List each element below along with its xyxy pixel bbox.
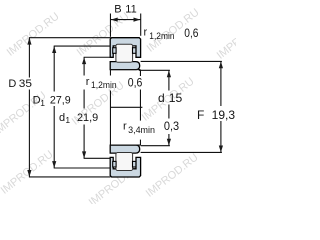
inner ring (lower) <box>110 145 140 153</box>
roller (lower) <box>116 153 133 171</box>
dimension lines <box>29 14 222 177</box>
svg-text:11: 11 <box>125 4 136 16</box>
dimension labels <box>8 4 235 135</box>
dimension arrowheads <box>27 18 223 177</box>
B dimension <box>109 14 111 37</box>
svg-text:d: d <box>59 112 65 124</box>
svg-text:F: F <box>197 108 204 122</box>
svg-text:r: r <box>86 76 90 88</box>
bearing lower half section (mirror) <box>110 145 140 177</box>
svg-text:r: r <box>144 27 148 39</box>
roller (upper) <box>116 44 133 62</box>
svg-text:D: D <box>8 78 16 90</box>
svg-text:r: r <box>123 120 127 132</box>
svg-text:21,9: 21,9 <box>77 112 98 124</box>
svg-text:35: 35 <box>19 78 32 90</box>
cage bars (lower) <box>113 161 116 167</box>
D1 dimension <box>53 46 55 91</box>
F dimension <box>220 62 222 106</box>
inner ring (upper) <box>110 62 140 70</box>
svg-text:B: B <box>114 4 121 16</box>
svg-text:3,4min: 3,4min <box>128 125 155 135</box>
svg-text:1,2min: 1,2min <box>91 80 117 90</box>
d1 dimension <box>83 57 85 75</box>
svg-text:19,3: 19,3 <box>212 108 236 122</box>
svg-text:0,3: 0,3 <box>164 119 179 133</box>
cage bars (upper) <box>113 48 116 54</box>
watermark IMPROD.RU tiles <box>0 7 272 209</box>
svg-text:d: d <box>158 91 165 105</box>
D dimension <box>28 38 30 78</box>
svg-text:1: 1 <box>65 115 70 125</box>
svg-text:0,6: 0,6 <box>128 76 143 90</box>
outer ring (lower) <box>110 157 140 177</box>
d dimension <box>168 71 170 91</box>
svg-text:1: 1 <box>40 98 45 108</box>
bearing upper half section <box>110 38 140 70</box>
bore and face edge lines <box>110 70 142 146</box>
outer ring (upper) <box>110 38 140 58</box>
svg-text:1,2min: 1,2min <box>149 31 174 41</box>
svg-text:27,9: 27,9 <box>50 94 71 106</box>
svg-text:0,6: 0,6 <box>184 26 198 40</box>
svg-text:15: 15 <box>169 91 183 105</box>
